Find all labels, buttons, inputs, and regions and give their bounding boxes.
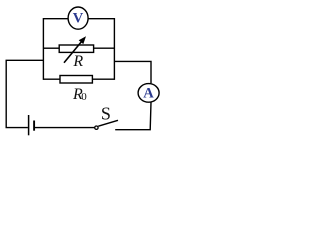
resistor R0 (60, 76, 92, 104)
battery long plate (28, 115, 30, 135)
svg-text:R: R (72, 53, 83, 70)
svg-text:S: S (101, 103, 111, 123)
wire left bus with top rail (43, 19, 68, 80)
battery short plate (33, 121, 35, 131)
wire ammeter tap (114, 61, 151, 83)
svg-text:A: A (143, 86, 154, 102)
svg-text:0: 0 (81, 91, 87, 103)
wire rheostat branch left (43, 47, 59, 49)
wire R0 branch right (92, 78, 114, 80)
svg-text:V: V (73, 10, 84, 26)
wire right bus with top rail (88, 19, 114, 80)
wire battery to switch (35, 127, 94, 129)
switch S (95, 103, 118, 129)
wire R0 branch left (43, 78, 60, 80)
voltmeter V (68, 7, 88, 29)
wire outer left loop (6, 60, 43, 127)
wire rheostat branch right (94, 47, 115, 49)
wire ammeter to bottom right corner (115, 102, 151, 129)
ammeter A (138, 84, 159, 103)
rheostat R (59, 36, 93, 70)
